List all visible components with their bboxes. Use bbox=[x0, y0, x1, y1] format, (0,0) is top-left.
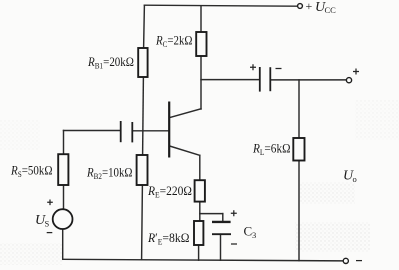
svg-text:R′E=8kΩ: R′E=8kΩ bbox=[147, 230, 189, 247]
svg-text:RL=6kΩ: RL=6kΩ bbox=[252, 141, 290, 158]
svg-text:C: C bbox=[244, 224, 253, 239]
svg-text:RS=50kΩ: RS=50kΩ bbox=[10, 163, 52, 180]
svg-text:3: 3 bbox=[252, 230, 256, 240]
svg-text:RC=2kΩ: RC=2kΩ bbox=[155, 33, 192, 50]
svg-text:RB2=10kΩ: RB2=10kΩ bbox=[86, 165, 132, 182]
svg-text:o: o bbox=[353, 174, 357, 184]
svg-text:S: S bbox=[45, 219, 50, 229]
svg-text:RB1=20kΩ: RB1=20kΩ bbox=[87, 54, 134, 71]
svg-text:RE=220Ω: RE=220Ω bbox=[147, 183, 192, 200]
svg-text:CC: CC bbox=[325, 5, 337, 15]
svg-text:+: + bbox=[306, 0, 313, 13]
